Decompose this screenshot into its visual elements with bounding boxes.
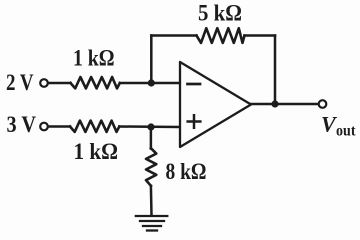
- input terminal (2 V): [40, 79, 48, 87]
- wire op-amp output: [251, 103, 319, 106]
- wire feedback top right segment: [245, 34, 276, 37]
- wire R1 to inverting input: [120, 82, 179, 85]
- input terminal (3 V): [40, 123, 48, 131]
- resistor R3 5 kΩ feedback: [197, 28, 245, 43]
- wire 2V terminal to R1: [49, 82, 71, 85]
- wire node B down to R4: [150, 127, 153, 149]
- op-amp U1: [180, 62, 251, 147]
- resistor R1 1 kΩ: [71, 77, 120, 88]
- svg-text:3 V: 3 V: [7, 112, 37, 137]
- wire R4 to ground: [150, 186, 153, 215]
- wire node A up to feedback: [150, 36, 153, 84]
- op-amp non-inverting pin label +: [188, 115, 201, 128]
- svg-text:2 V: 2 V: [6, 70, 34, 95]
- ground: [136, 216, 168, 231]
- node C (output junction): [271, 100, 278, 107]
- wire feedback top left segment: [151, 34, 196, 37]
- wire feedback down to output node: [274, 36, 277, 105]
- svg-text:8 kΩ: 8 kΩ: [166, 159, 207, 184]
- svg-text:out: out: [336, 123, 356, 140]
- wire R2 to non-inverting input: [119, 125, 179, 128]
- node B (non-inverting input junction): [147, 123, 154, 130]
- resistor R2 1 kΩ: [70, 121, 119, 132]
- wire 3V terminal to R2: [49, 125, 70, 128]
- resistor R4 8 kΩ: [146, 148, 156, 186]
- output terminal Vout: [319, 100, 327, 108]
- node A (inverting input junction): [148, 79, 155, 86]
- svg-text:1 kΩ: 1 kΩ: [73, 46, 115, 71]
- op-amp inverting pin label −: [188, 83, 201, 86]
- label Vout: [321, 112, 356, 140]
- svg-text:5 kΩ: 5 kΩ: [198, 1, 242, 26]
- svg-text:1 kΩ: 1 kΩ: [74, 139, 119, 164]
